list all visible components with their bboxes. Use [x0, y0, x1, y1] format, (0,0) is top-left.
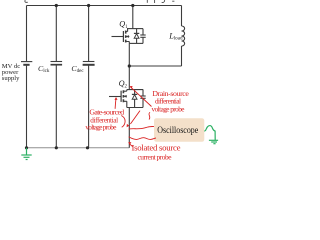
arrow to Q2 gate — [114, 100, 117, 109]
transistor Q1 — [127, 29, 129, 32]
svg-text:Isolated source: Isolated source — [132, 142, 181, 152]
transistor Q2 — [126, 90, 128, 92]
green scope ground cable — [204, 126, 218, 144]
wire switch-node vertical — [128, 43, 130, 89]
Q1 branch bottom wire — [129, 42, 143, 44]
wire left column upper — [26, 6, 28, 62]
Q1 arrow — [126, 35, 129, 38]
Q1 drain jog / branch top wire — [127, 28, 143, 30]
current probe arrow tail — [130, 144, 133, 146]
curl beside gate text — [121, 116, 125, 128]
Q1 diode triangle — [134, 34, 139, 39]
label gate-source probe (red) — [85, 108, 124, 132]
battery V1 MV dc supply — [21, 61, 32, 63]
wire right column lower — [181, 46, 183, 66]
Q1 output capacitor — [142, 29, 144, 35]
squiggle from drain text to scope — [149, 112, 150, 119]
diagonal to Q2 source point — [130, 111, 140, 124]
label drain-source probe (red) — [152, 89, 190, 114]
arrow to Q2 drain — [132, 88, 152, 107]
wire right column upper — [181, 6, 183, 27]
inductor Lload — [182, 26, 185, 46]
svg-text:supply: supply — [2, 75, 20, 82]
oscilloscope box — [154, 118, 204, 142]
svg-text:voltage probe: voltage probe — [85, 123, 116, 131]
capacitor Cdec — [83, 61, 95, 63]
capacitor Cdec column lower wire — [88, 66, 90, 148]
svg-text:voltage probe: voltage probe — [152, 105, 185, 113]
svg-text:differential: differential — [155, 98, 181, 106]
Q2 arrow — [124, 95, 127, 98]
svg-text:Oscilloscope: Oscilloscope — [157, 125, 198, 136]
ground left (green) — [21, 148, 31, 160]
capacitor Clck column lower wire — [55, 66, 57, 148]
junction dots — [25, 4, 134, 150]
red arrowheads — [115, 86, 133, 145]
probe cable to oscilloscope lower — [129, 137, 156, 140]
Q2 drain jog / branch top wire — [127, 89, 143, 91]
Q1 body diode — [136, 29, 138, 34]
wire left column lower — [26, 66, 28, 148]
probe cable to oscilloscope upper — [129, 126, 154, 129]
capacitor Clck column upper wire — [55, 6, 57, 62]
capacitor Cdec column upper wire — [88, 6, 90, 62]
Q2 diode triangle — [132, 95, 137, 100]
wire Q2 source to bottom rail — [128, 108, 130, 148]
Q2 output capacitor — [142, 90, 144, 96]
Q2 body diode — [134, 90, 136, 95]
bottom rail wire — [27, 147, 130, 149]
capacitor Clck — [51, 61, 63, 63]
wire main vertical from top rail to Q1 — [132, 6, 134, 29]
svg-text:Drain-source: Drain-source — [152, 89, 189, 98]
svg-text:current probe: current probe — [138, 152, 173, 161]
label current probe (red) — [132, 142, 181, 161]
Q2 branch bottom wire — [127, 107, 143, 109]
mid rail wire to load — [129, 65, 181, 67]
cropped caption remnants top edge — [25, 0, 174, 3]
top rail wire — [27, 5, 182, 7]
red probe annotations — [115, 88, 156, 147]
